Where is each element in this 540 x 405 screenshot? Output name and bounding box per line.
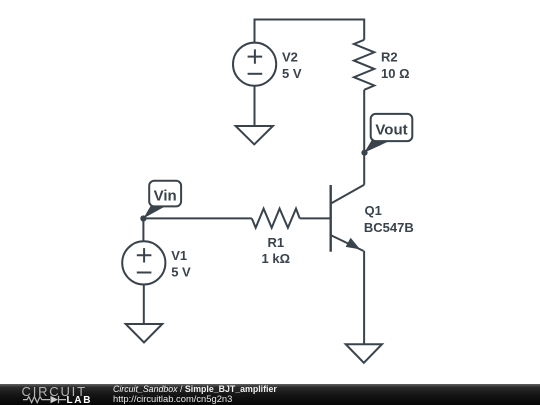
label R1 designator <box>267 235 284 250</box>
CircuitLab logo text LAB <box>67 396 93 405</box>
ground (below V2) <box>236 126 273 144</box>
ground (below V1) <box>126 324 163 342</box>
node flag Vout <box>364 114 412 153</box>
wire R1 to Q1 base <box>300 217 331 219</box>
svg-text:R1: R1 <box>267 235 284 250</box>
wire Vin node to V1 <box>142 218 144 241</box>
svg-text:Vin: Vin <box>154 188 177 205</box>
label Q1 part BC547B <box>364 220 414 235</box>
wire Vin node to R1 <box>143 217 251 219</box>
CircuitLab logo resistor+diode glyph <box>21 395 89 405</box>
svg-text:10 Ω: 10 Ω <box>381 66 410 81</box>
svg-text:BC547B: BC547B <box>364 220 414 235</box>
svg-text:1 kΩ: 1 kΩ <box>262 251 291 266</box>
junction dot Vout <box>361 150 367 156</box>
svg-text:Vout: Vout <box>375 121 407 138</box>
label R2 value 10 ohm <box>381 66 410 81</box>
footer bar <box>0 384 540 405</box>
wire V1 to ground <box>143 285 145 324</box>
svg-text:V2: V2 <box>282 49 298 64</box>
wire R2 to Q1 collector <box>363 90 365 185</box>
resistor R2 <box>354 40 374 90</box>
svg-text:5 V: 5 V <box>282 66 302 81</box>
label V2 value 5 V <box>282 66 302 81</box>
label Q1 designator <box>365 203 382 218</box>
node flag Vin <box>143 181 181 219</box>
wire top rail V2 to R2 <box>255 20 365 43</box>
svg-text:V1: V1 <box>171 248 187 263</box>
label R2 designator <box>381 49 398 64</box>
svg-text:5 V: 5 V <box>171 265 191 280</box>
svg-text:R2: R2 <box>381 49 398 64</box>
label V1 designator <box>171 248 187 263</box>
svg-text:Q1: Q1 <box>365 203 382 218</box>
label V1 value 5 V <box>171 265 191 280</box>
node name text Vout <box>375 121 407 138</box>
transistor Q1 <box>331 185 365 252</box>
label V2 designator <box>282 49 298 64</box>
label R1 value 1 kohm <box>262 251 291 266</box>
footer title line <box>113 385 277 394</box>
footer url line <box>113 394 232 403</box>
node name text Vin <box>154 188 177 205</box>
voltage source V2 <box>233 43 276 86</box>
voltage source V1 <box>122 241 165 284</box>
wire Q1 emitter to ground <box>363 251 365 344</box>
resistor R1 <box>252 209 300 228</box>
junction dot Vin <box>140 215 146 221</box>
ground (below Q1) <box>346 344 382 363</box>
CircuitLab logo text CIRCUIT <box>22 387 87 397</box>
wire V2 to ground <box>254 86 256 126</box>
